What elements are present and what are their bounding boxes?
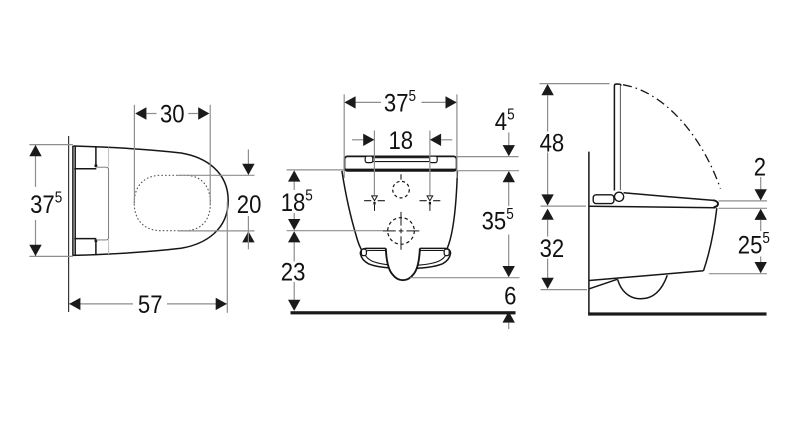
- bolt cross right: vertical below: [429, 205, 431, 211]
- bolt cross left: open arrowhead: [372, 196, 378, 201]
- dimension 35.5: dimension line lower: [508, 235, 510, 267]
- seat/lid bar outline: [345, 156, 457, 171]
- dimension 57: right arrow: [216, 298, 227, 310]
- svg-text:18: 18: [388, 128, 413, 156]
- dimension 4.5: extension line bottom: [458, 170, 520, 172]
- mounting plate back face double line: [72, 146, 74, 256]
- dimension 37.5 mid: left arrow: [344, 96, 355, 108]
- dimension 48: extension stub top: [540, 83, 610, 85]
- dimension 48: extension stub middle: [541, 205, 587, 207]
- trap arc: [618, 275, 668, 299]
- dimension 37.5 left: extension line top: [29, 144, 73, 146]
- dimension 37.5 mid: right arrow: [446, 96, 457, 108]
- bottom rim outer ellipse: [360, 248, 450, 268]
- dimension 2: text: [754, 154, 766, 182]
- dimension 57: right extension line: [226, 202, 228, 313]
- dimension 37.5 left: top arrow: [29, 145, 41, 156]
- wall line: [588, 152, 590, 316]
- dimension 20: dimension line below: [247, 216, 249, 249]
- rim end clip left: [361, 249, 366, 255]
- dimension 57: text: [138, 292, 163, 320]
- raised lid: [614, 84, 621, 191]
- dimension 4.5: leader above: [508, 133, 510, 146]
- dimension 20: top arrow: [242, 164, 254, 175]
- dimension 48: text: [540, 130, 565, 158]
- dimension 18: right arrow: [430, 134, 441, 146]
- junction dot lower: [95, 239, 98, 242]
- dimension 6: bottom arrow below floor: [503, 311, 515, 322]
- lid back face line: [619, 85, 621, 190]
- dimension 20: extension line bottom: [178, 230, 255, 232]
- dimension 37.5 mid: text: [384, 88, 416, 118]
- ceramic front edge: [704, 208, 717, 271]
- ceramic body outline right: [445, 171, 457, 252]
- bowl outer outline (top view): [73, 146, 228, 255]
- dimension 32: extension stub bottom: [541, 289, 588, 291]
- dimension 30: text: [160, 102, 185, 130]
- dimension 48: dimension line: [547, 95, 549, 132]
- dimension 35.5: bottom arrow: [503, 266, 515, 277]
- dimension 30: left arrow: [135, 107, 146, 119]
- dimension 48: top arrow: [541, 84, 553, 95]
- dimension 6: extension line: [410, 277, 520, 279]
- dimension 18: right leader: [441, 139, 452, 141]
- dimension 2: top arrow: [755, 189, 767, 200]
- bolt cross left: horizontal: [364, 200, 371, 202]
- dimension 57: left arrow: [69, 298, 80, 310]
- lid top strip: [370, 158, 437, 162]
- dimension 25.5: extension line bottom: [709, 273, 767, 275]
- dimension 48: bottom arrow: [541, 194, 553, 205]
- dimension 30: right arrow: [198, 107, 209, 119]
- svg-text:32: 32: [540, 236, 565, 264]
- bolt cross left: vertical below: [374, 205, 376, 211]
- dimension 4.5: text: [495, 107, 515, 137]
- dimension 23: text: [281, 259, 306, 287]
- dimension 20: extension line top: [178, 174, 255, 176]
- dimension 37.5 mid: dimension line: [345, 101, 381, 103]
- dimension 57: dimension line: [69, 303, 133, 305]
- dimension 2: extension line bottom: [719, 207, 768, 209]
- dimension 32: text: [540, 236, 565, 264]
- dimension 4.5: bottom arrow (shared with 35.5): [503, 171, 515, 182]
- seat front tip: [713, 200, 718, 207]
- svg-text:20: 20: [237, 192, 262, 220]
- dimension 6: text: [504, 283, 516, 311]
- hinge knuckle circle: [615, 192, 624, 201]
- dimension 32: bottom arrow: [541, 278, 553, 289]
- dimension 23: top arrow: [288, 231, 300, 242]
- dimension 25.5: top arrow (shared with 2): [755, 209, 767, 220]
- hinge bracket: [593, 195, 614, 204]
- small dashed circle (supply): [393, 181, 410, 198]
- dimension 37.5 mid: extension line right: [456, 94, 458, 178]
- ceramic bottom edge: [589, 271, 703, 281]
- svg-text:6: 6: [504, 283, 516, 311]
- dimension 37.5 left: dimension line: [35, 145, 37, 187]
- crosshair vertical: [400, 212, 402, 226]
- dimension 18: extension line left: [373, 131, 375, 196]
- dimension 18: left leader: [352, 139, 363, 141]
- outlet tongue: [386, 247, 420, 280]
- hinge cap right: [430, 156, 438, 162]
- dimension 18.5: text: [281, 188, 313, 218]
- dimension 18.5: top arrow: [288, 170, 300, 181]
- dimension 35.5: dimension line upper: [508, 182, 510, 206]
- rim end clip right: [444, 249, 449, 255]
- lid swing dash-dot arc: [623, 85, 720, 189]
- svg-text:48: 48: [540, 130, 565, 158]
- svg-text:57: 57: [138, 292, 163, 320]
- seat/lid bar bottom thick edge: [345, 169, 456, 171]
- plate recess top edge: [74, 168, 96, 170]
- dimension 20: bottom arrow: [242, 231, 254, 242]
- dimension 25.5: dimension line: [760, 220, 762, 231]
- dimension 30: leader dashes: [146, 113, 156, 115]
- dimension 6: leader below floor: [508, 323, 510, 329]
- dimension 30: extension line right: [209, 105, 211, 206]
- dimension 18: extension line right: [429, 131, 431, 196]
- dimension 20: dimension line above: [247, 150, 249, 165]
- bolt cross left: tick below: [373, 202, 375, 205]
- bolt cross right: tick below: [429, 202, 431, 205]
- seat opening dotted ellipse: [134, 175, 210, 230]
- dimension 18: text: [388, 128, 413, 156]
- plate inner step upper vertical line: [95, 146, 97, 165]
- wall plane / 57 left extension line: [68, 136, 70, 312]
- plate inner step lower vertical line: [95, 241, 97, 255]
- dimension 18.5: extension line top: [287, 169, 345, 171]
- floor line right: [588, 312, 766, 315]
- dimension 4.5: top arrow: [503, 145, 515, 156]
- dimension 37.5 left: extension line bottom: [29, 255, 73, 257]
- big dashed circle (outlet): [388, 218, 415, 245]
- svg-text:30: 30: [160, 102, 185, 130]
- bottom rim inner line: [364, 251, 446, 266]
- bolt cross right: horizontal: [420, 200, 427, 202]
- dimension 37.5 left: text: [30, 190, 62, 220]
- hinge cap left: [365, 156, 373, 162]
- faint bowl top-surface edge lower: [108, 240, 110, 254]
- dimension 32: top arrow: [541, 209, 553, 220]
- junction dot upper: [95, 164, 98, 167]
- dimension 18.5: bottom arrow: [288, 219, 300, 230]
- dimension 23: dimension line upper: [293, 242, 295, 261]
- dimension 23: bottom arrow: [288, 300, 300, 311]
- dimension 18: left arrow: [363, 134, 374, 146]
- dimension 37.5 left: bottom arrow: [29, 245, 41, 256]
- svg-text:23: 23: [281, 259, 306, 287]
- dimension 23: dimension line lower: [293, 282, 295, 300]
- dimension 32: dimension line: [547, 220, 549, 237]
- dimension 4.5: extension line top: [458, 156, 519, 158]
- seat top line: [624, 193, 714, 201]
- crosshair horizontal: [383, 230, 396, 232]
- dimension 30: extension line left: [133, 105, 135, 203]
- centerline dash above small circle: [400, 174, 402, 179]
- floor line middle: [291, 311, 516, 314]
- dimension 2: leader above: [760, 177, 762, 190]
- dimension 18.5: extension line bottom: [287, 230, 383, 232]
- bolt cross right: open arrowhead: [427, 196, 433, 201]
- bottom back chamfer: [589, 279, 617, 289]
- dimension 20: text: [237, 192, 262, 220]
- plate recess right contour: [96, 167, 108, 240]
- ceramic body outline left: [342, 171, 364, 253]
- faint bowl top-surface edge upper: [108, 147, 110, 167]
- dimension 35.5: text: [482, 206, 514, 236]
- dimension 37.5 mid: extension line left: [343, 94, 345, 178]
- svg-text:2: 2: [754, 154, 766, 182]
- dimension 18.5: dimension line: [293, 182, 295, 190]
- dimension 25.5: bottom arrow: [755, 262, 767, 273]
- dimension 2: extension line top: [719, 200, 768, 202]
- ceramic rim top line: [589, 206, 716, 208]
- plate recess bottom edge: [74, 238, 96, 240]
- dimension 25.5: text: [738, 230, 770, 260]
